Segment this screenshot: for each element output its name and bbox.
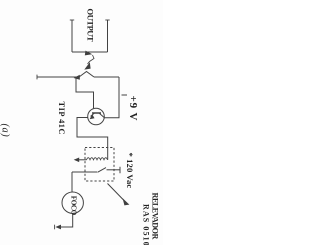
svg-text:OUTPUT: OUTPUT bbox=[86, 9, 96, 43]
svg-text:TIP 41C: TIP 41C bbox=[57, 102, 66, 136]
svg-text:FOCO: FOCO bbox=[70, 196, 78, 216]
svg-text:* 120 Vac: * 120 Vac bbox=[125, 153, 135, 189]
svg-text:RAS 0510: RAS 0510 bbox=[142, 204, 151, 245]
svg-text:+9 V: +9 V bbox=[127, 96, 139, 122]
svg-text:(a): (a) bbox=[0, 124, 11, 138]
svg-text:RELEVADOR: RELEVADOR bbox=[150, 193, 159, 240]
